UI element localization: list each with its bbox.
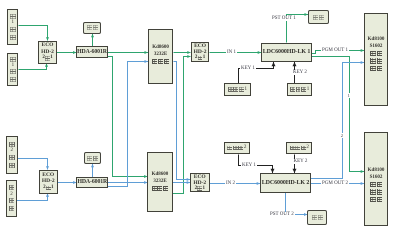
wire HDA1 to K2 (108, 57, 148, 177)
wire 台标机1 KEY 2 to LDC1 (294, 62, 296, 83)
box Kd8100 S1602 备播出切换器 (364, 132, 388, 226)
wire LDC1 PGM OUT 1 to R1 (312, 51, 364, 54)
wire LDC1 out 2 to R2 (312, 57, 364, 172)
label PST OUT 2 (269, 212, 295, 217)
wire HDA2 to K1 (108, 62, 148, 187)
label PGM OUT 2 (321, 181, 349, 186)
wire LDC2 PGM OUT 2 to R2 (311, 183, 364, 185)
wire ECO3 to LDC1 IN 1 (210, 52, 262, 54)
label 1 on green wire (347, 93, 351, 98)
wire 备2通道 to ECO4 (17, 194, 48, 201)
label PGM OUT 1 (321, 48, 349, 53)
label IN 2 (225, 181, 236, 186)
wire ECO1 to HDA1 (57, 52, 76, 54)
wire 备1通道 to ECO1 (19, 64, 47, 70)
box 预监 #1 预监 (83, 22, 101, 35)
label KEY 2 top (292, 70, 308, 75)
box ECO HD-2 2选1 #1 (38, 41, 57, 64)
box 主1通道 (7, 9, 18, 45)
wire 主1通道 to ECO1 (19, 26, 48, 41)
box 台标机2 (286, 142, 312, 155)
wire K1 to ECO6 (173, 62, 190, 180)
box 备1通道 (7, 53, 18, 86)
box HDA-6001R #2 (76, 177, 108, 188)
box 预监 #3 预监 (84, 152, 101, 164)
label 2 on blue wire (340, 133, 344, 138)
box ECO HD-2 2选1 #3 (191, 42, 210, 62)
wire 字幕机2 KEY 1 to LDC2 (239, 154, 273, 173)
wire 台标机2 KEY 2 to LDC2 (294, 154, 296, 173)
label KEY 1 bottom (241, 163, 257, 168)
wire LDC1 PST OUT 1 to 预监2 (287, 15, 308, 43)
box Kd8600 3232E 备处理 (147, 152, 172, 212)
box 预监 #2 预监 (308, 10, 329, 25)
wire 主2通道 to ECO4 (17, 159, 48, 170)
label KEY 1 top (240, 66, 256, 71)
wire HDA2 to K2 (108, 182, 147, 184)
wire K2 to ECO6 (173, 182, 190, 184)
box LDC6000HD-LK 1 (261, 43, 312, 63)
label PST OUT 1 (271, 16, 297, 21)
box 字幕机1 (224, 83, 251, 96)
box 预监 #4 预监 (307, 210, 327, 225)
box Kd8600 3232E 主处理 (148, 29, 174, 84)
box LDC6000HD-LK 2 (260, 173, 311, 193)
box 字幕机2 (224, 142, 250, 155)
wire ECO4 to HDA2 (58, 182, 77, 184)
box 主2通道 (6, 136, 18, 174)
box HDA-6001R #1 (76, 46, 107, 58)
box 台标机1 (287, 83, 312, 96)
wire HDA1 to 预监1 (92, 34, 94, 46)
box ECO HD-2 2选1 #4 (190, 173, 210, 192)
label KEY 2 bottom (293, 159, 309, 164)
wire K2 to ECO3 (173, 57, 191, 194)
wire LDC2 out 2 to R1 (311, 63, 364, 179)
wire ECO6 to LDC2 IN 2 (210, 183, 261, 185)
wire HDA1 to K1 (108, 52, 148, 54)
wire K1 to ECO3 (173, 52, 190, 54)
wire 字幕机1 KEY 1 to LDC1 (239, 62, 274, 83)
box 备2通道 (6, 180, 17, 218)
wire LDC2 PST OUT 2 to 预监4 (286, 193, 308, 215)
box ECO HD-2 2选1 #2 (39, 170, 58, 194)
label IN 1 (226, 50, 237, 55)
wire HDA2 to 预监3 (92, 164, 94, 177)
box Kd8100 S1602 主播出切换器 (364, 13, 388, 106)
